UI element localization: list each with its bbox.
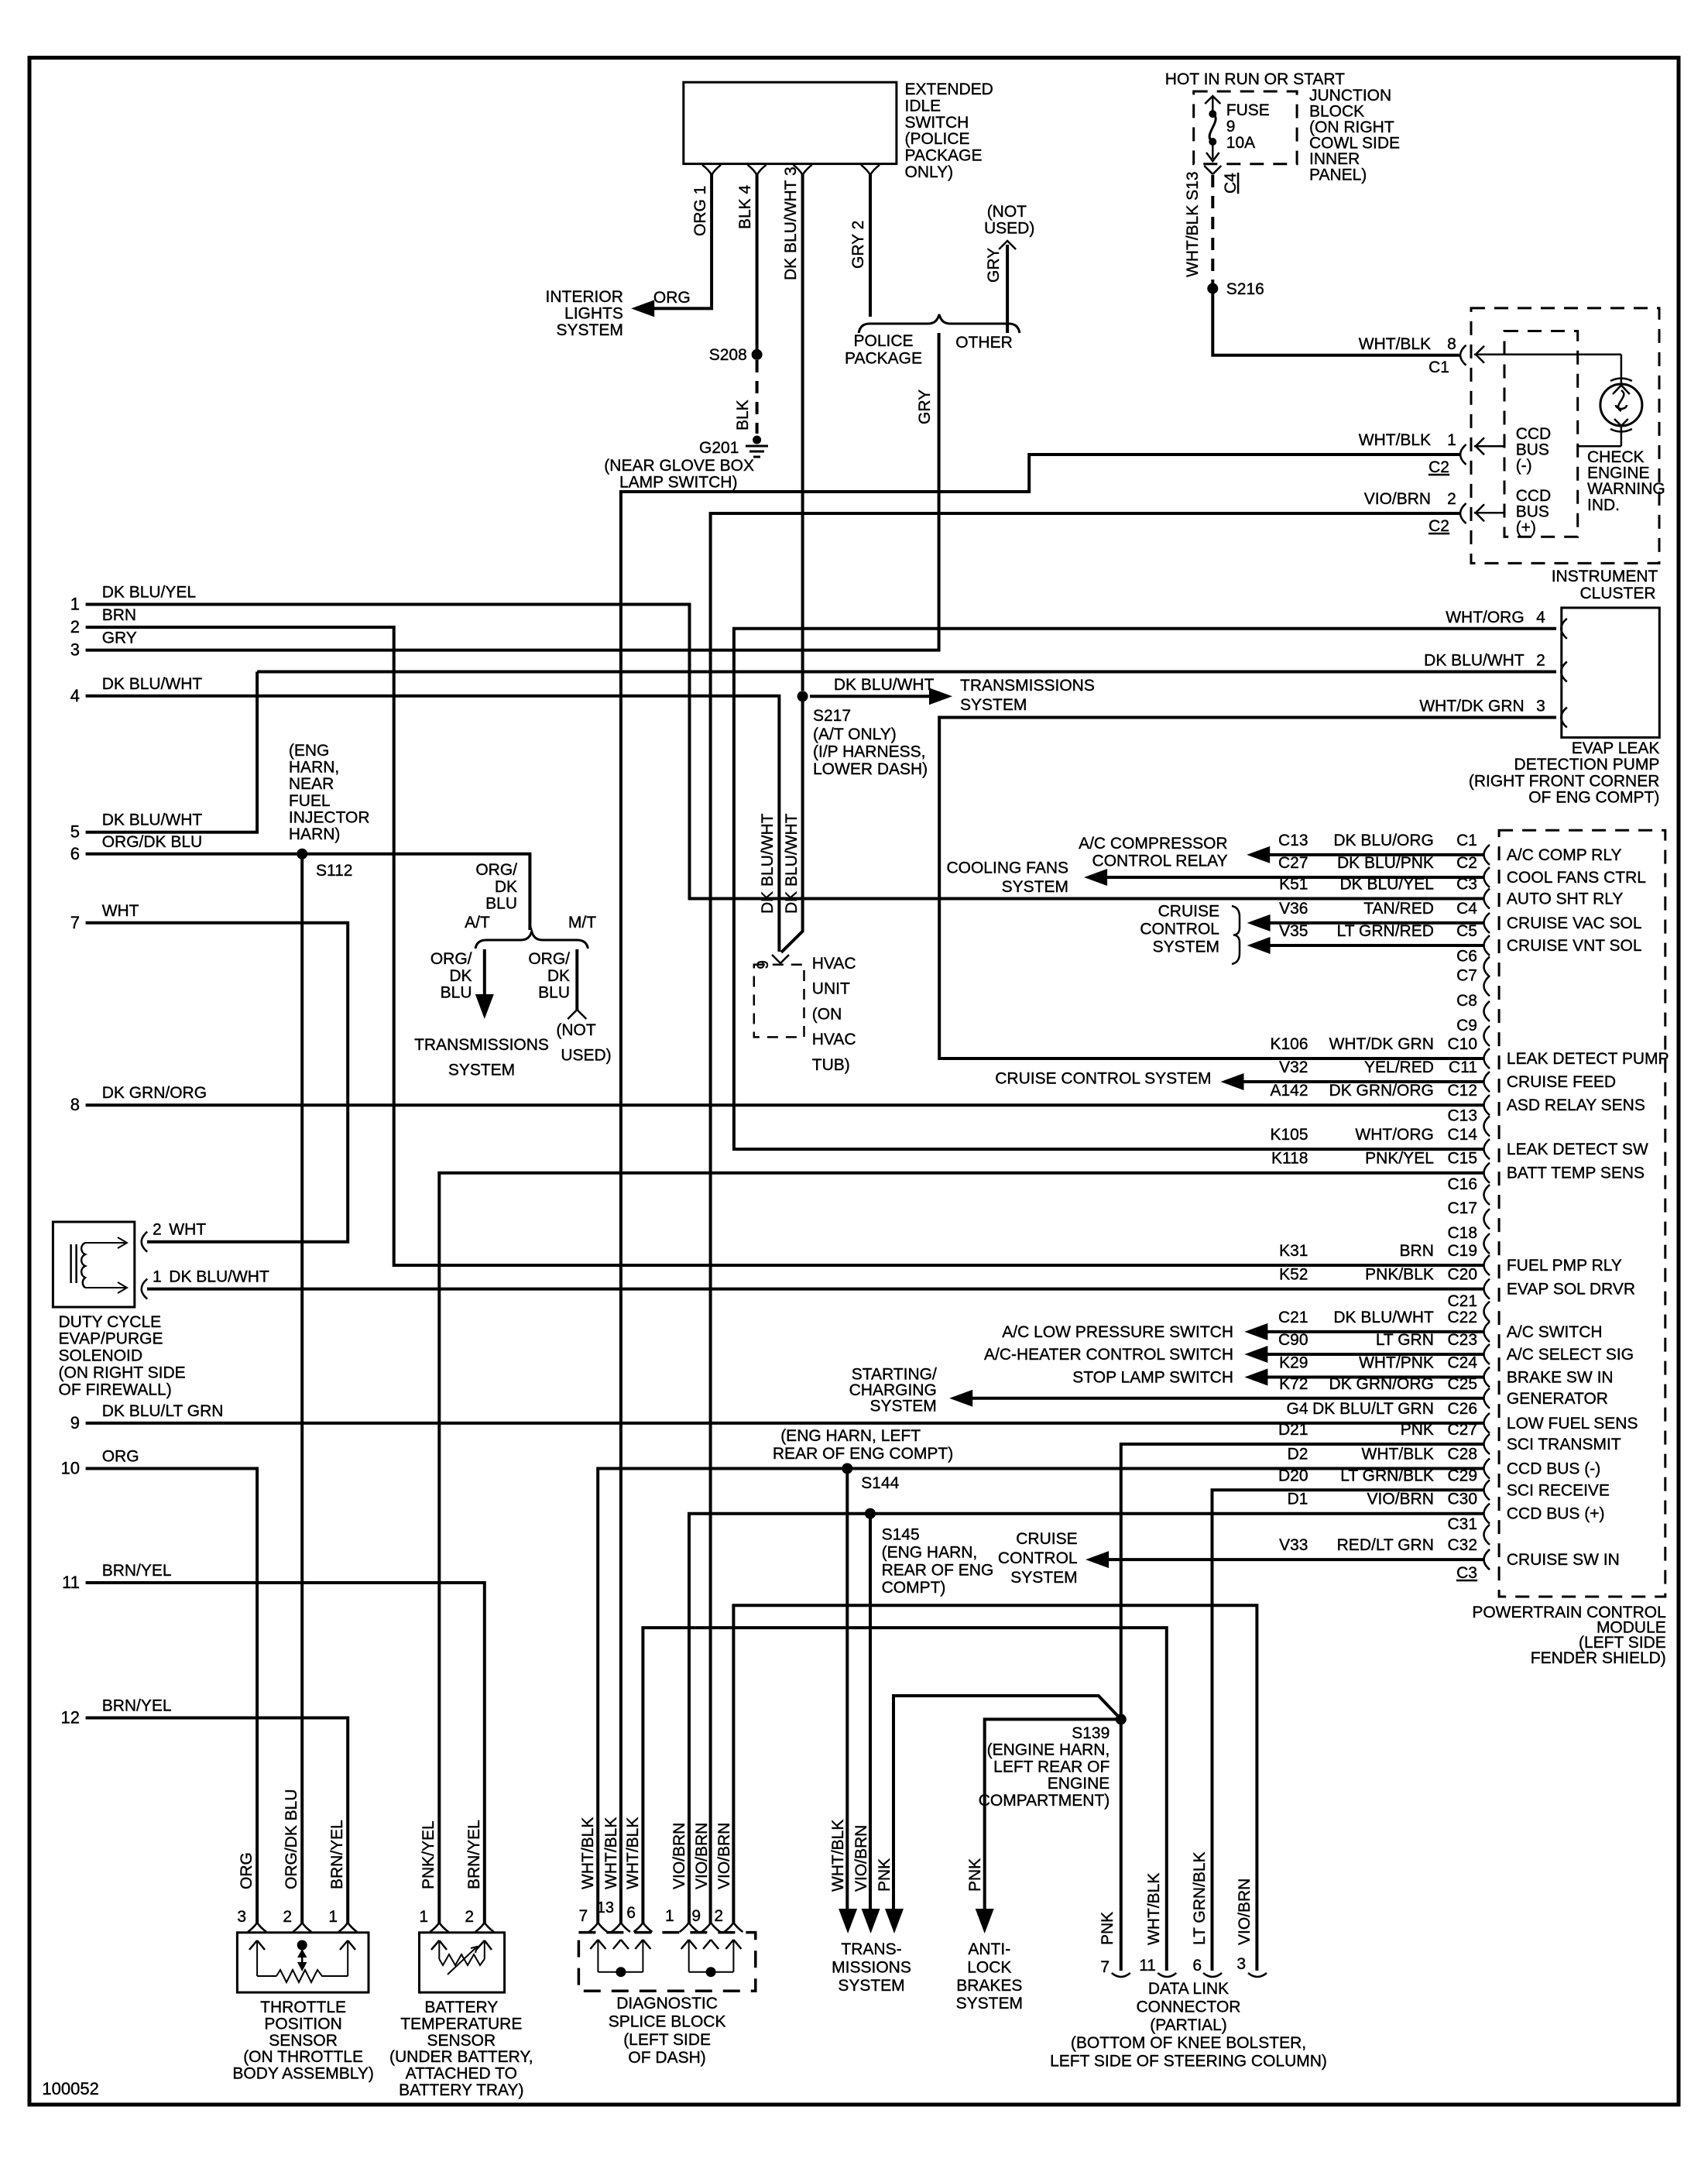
svg-text:CCD BUS (-): CCD BUS (-) [1507, 1460, 1600, 1478]
svg-text:SYSTEM: SYSTEM [838, 1977, 904, 1995]
svg-text:C13: C13 [1447, 1107, 1477, 1124]
svg-text:D21: D21 [1278, 1421, 1308, 1439]
svg-text:S145: S145 [882, 1526, 920, 1544]
svg-text:IND.: IND. [1587, 496, 1620, 514]
svg-text:DK BLU/WHT: DK BLU/WHT [1424, 652, 1525, 670]
svg-text:1: 1 [665, 1907, 674, 1925]
svg-text:SCI TRANSMIT: SCI TRANSMIT [1507, 1436, 1621, 1453]
svg-text:C22: C22 [1447, 1309, 1477, 1326]
svg-text:COOL FANS CTRL: COOL FANS CTRL [1507, 869, 1646, 887]
svg-text:LT GRN: LT GRN [1376, 1331, 1434, 1349]
svg-text:G4: G4 [1286, 1400, 1308, 1418]
svg-text:TRANS-: TRANS- [841, 1940, 901, 1958]
svg-text:WHT/BLK: WHT/BLK [829, 1820, 847, 1892]
svg-text:HVAC: HVAC [812, 1031, 856, 1048]
svg-text:ATTACHED TO: ATTACHED TO [406, 2065, 517, 2083]
svg-text:K29: K29 [1279, 1354, 1308, 1372]
svg-text:SYSTEM: SYSTEM [557, 321, 623, 339]
svg-text:V36: V36 [1279, 900, 1308, 918]
svg-text:SYSTEM: SYSTEM [1010, 1569, 1077, 1587]
svg-text:GRY: GRY [985, 248, 1003, 283]
svg-text:TEMPERATURE: TEMPERATURE [400, 2015, 522, 2033]
svg-text:9: 9 [754, 960, 772, 969]
svg-text:CONTROL: CONTROL [998, 1549, 1078, 1567]
svg-text:REAR OF ENG: REAR OF ENG [882, 1561, 994, 1579]
svg-text:ASD RELAY SENS: ASD RELAY SENS [1507, 1096, 1645, 1114]
svg-text:ORG: ORG [653, 289, 691, 307]
svg-text:C24: C24 [1447, 1354, 1477, 1372]
svg-text:(POLICE: (POLICE [905, 130, 970, 148]
svg-text:11: 11 [1139, 1957, 1156, 1975]
svg-text:V35: V35 [1279, 922, 1308, 940]
svg-text:S208: S208 [709, 346, 747, 364]
svg-text:ORG: ORG [102, 1448, 139, 1466]
svg-text:ONLY): ONLY) [905, 163, 954, 181]
svg-text:BRAKES: BRAKES [956, 1977, 1022, 1995]
svg-text:LAMP SWITCH): LAMP SWITCH) [619, 474, 737, 492]
svg-text:BUS: BUS [1516, 503, 1549, 521]
svg-text:C31: C31 [1447, 1515, 1477, 1533]
svg-text:SYSTEM: SYSTEM [960, 696, 1027, 714]
svg-text:PACKAGE: PACKAGE [905, 147, 983, 165]
svg-text:SYSTEM: SYSTEM [448, 1062, 515, 1079]
svg-text:(A/T ONLY): (A/T ONLY) [813, 726, 897, 743]
svg-text:WHT/ORG: WHT/ORG [1355, 1126, 1433, 1144]
svg-text:D2: D2 [1288, 1446, 1308, 1463]
svg-text:VIO/BRN: VIO/BRN [715, 1823, 733, 1889]
svg-text:(ON: (ON [812, 1005, 842, 1023]
svg-text:7: 7 [70, 913, 80, 932]
svg-text:SENSOR: SENSOR [269, 2032, 338, 2050]
svg-text:TRANSMISSIONS: TRANSMISSIONS [960, 677, 1095, 695]
svg-text:C5: C5 [1456, 922, 1477, 940]
svg-text:CRUISE VNT SOL: CRUISE VNT SOL [1507, 937, 1642, 955]
svg-text:C10: C10 [1447, 1035, 1477, 1053]
svg-text:ORG 1: ORG 1 [691, 186, 709, 236]
svg-text:C4: C4 [1222, 173, 1240, 194]
svg-text:POSITION: POSITION [264, 2015, 341, 2033]
svg-text:C8: C8 [1456, 992, 1477, 1010]
svg-text:CONTROL: CONTROL [1140, 921, 1219, 938]
svg-text:9: 9 [691, 1907, 701, 1925]
svg-text:EVAP SOL DRVR: EVAP SOL DRVR [1507, 1281, 1635, 1299]
svg-text:BLU: BLU [485, 895, 517, 913]
svg-text:WHT/BLK: WHT/BLK [602, 1817, 620, 1889]
svg-text:POLICE: POLICE [853, 332, 913, 350]
svg-text:CRUISE FEED: CRUISE FEED [1507, 1073, 1616, 1091]
svg-text:EXTENDED: EXTENDED [905, 81, 993, 98]
svg-text:2: 2 [283, 1908, 292, 1926]
svg-text:2: 2 [70, 617, 80, 636]
svg-text:WHT/BLK: WHT/BLK [1359, 431, 1431, 449]
svg-text:TAN/RED: TAN/RED [1363, 900, 1434, 918]
svg-text:C32: C32 [1447, 1536, 1477, 1554]
svg-text:(NOT: (NOT [556, 1021, 595, 1039]
svg-text:INSTRUMENT: INSTRUMENT [1552, 568, 1658, 585]
svg-text:COMPT): COMPT) [882, 1579, 946, 1597]
svg-text:SWITCH: SWITCH [905, 114, 969, 132]
svg-text:1: 1 [153, 1268, 162, 1286]
svg-text:WHT/DK GRN: WHT/DK GRN [1419, 698, 1524, 715]
svg-text:8: 8 [70, 1095, 80, 1114]
svg-text:S144: S144 [861, 1474, 899, 1492]
svg-text:1: 1 [70, 595, 80, 614]
svg-text:LT GRN/BLK: LT GRN/BLK [1191, 1851, 1209, 1945]
svg-text:CRUISE SW IN: CRUISE SW IN [1507, 1551, 1620, 1569]
svg-text:2: 2 [1536, 652, 1545, 670]
svg-text:EVAP LEAK: EVAP LEAK [1572, 739, 1660, 757]
svg-text:CRUISE: CRUISE [1158, 903, 1219, 921]
svg-text:SYSTEM: SYSTEM [956, 1995, 1023, 2012]
svg-text:WHT/BLK: WHT/BLK [1362, 1446, 1434, 1463]
svg-text:C3: C3 [1456, 1564, 1477, 1582]
svg-text:D1: D1 [1288, 1491, 1308, 1508]
svg-text:C21: C21 [1278, 1309, 1308, 1326]
svg-text:C17: C17 [1447, 1199, 1477, 1217]
svg-text:TUB): TUB) [812, 1056, 850, 1074]
svg-text:YEL/RED: YEL/RED [1364, 1058, 1434, 1076]
svg-text:C1: C1 [1428, 359, 1449, 376]
svg-text:CRUISE VAC SOL: CRUISE VAC SOL [1507, 914, 1642, 932]
svg-text:DATA LINK: DATA LINK [1148, 1980, 1229, 1998]
svg-text:CONTROL RELAY: CONTROL RELAY [1092, 853, 1228, 870]
svg-text:LT GRN/RED: LT GRN/RED [1337, 922, 1434, 940]
svg-text:PNK: PNK [1401, 1421, 1434, 1439]
svg-text:ANTI-: ANTI- [968, 1940, 1010, 1958]
svg-text:A/C SELECT SIG: A/C SELECT SIG [1507, 1346, 1634, 1364]
svg-text:A/C SWITCH: A/C SWITCH [1507, 1323, 1603, 1341]
svg-text:BLU: BLU [538, 984, 570, 1002]
svg-text:DK BLU/WHT: DK BLU/WHT [783, 813, 801, 914]
svg-text:VIO/BRN: VIO/BRN [693, 1823, 711, 1889]
svg-text:CCD BUS (+): CCD BUS (+) [1507, 1505, 1605, 1523]
svg-text:K106: K106 [1270, 1035, 1308, 1053]
svg-text:WHT/BLK: WHT/BLK [1359, 335, 1431, 353]
svg-text:C16: C16 [1447, 1175, 1477, 1193]
svg-text:DK BLU/WHT: DK BLU/WHT [1333, 1309, 1434, 1326]
svg-text:V33: V33 [1279, 1536, 1308, 1554]
svg-text:C6: C6 [1456, 948, 1477, 966]
svg-text:CHECK: CHECK [1587, 448, 1645, 466]
svg-text:ORG/DK BLU: ORG/DK BLU [283, 1789, 300, 1889]
svg-text:DK GRN/ORG: DK GRN/ORG [1329, 1082, 1434, 1100]
svg-text:1: 1 [1447, 431, 1456, 449]
svg-text:GENERATOR: GENERATOR [1507, 1390, 1608, 1408]
svg-text:A/C COMP RLY: A/C COMP RLY [1507, 846, 1622, 864]
svg-text:ENGINE: ENGINE [1048, 1775, 1110, 1793]
svg-text:3: 3 [70, 640, 80, 660]
svg-text:WHT/DK GRN: WHT/DK GRN [1329, 1035, 1434, 1053]
svg-text:C20: C20 [1447, 1266, 1477, 1284]
svg-text:DK BLU/PNK: DK BLU/PNK [1337, 854, 1434, 872]
svg-text:(ENG HARN,: (ENG HARN, [882, 1544, 978, 1562]
svg-text:CCD: CCD [1516, 487, 1552, 505]
svg-text:VIO/BRN: VIO/BRN [1364, 490, 1431, 508]
svg-text:3: 3 [237, 1908, 246, 1926]
svg-text:DK BLU/LT GRN: DK BLU/LT GRN [102, 1402, 224, 1420]
svg-text:PNK/YEL: PNK/YEL [420, 1820, 437, 1889]
svg-text:DK: DK [495, 878, 517, 896]
svg-text:PNK/YEL: PNK/YEL [1365, 1150, 1434, 1168]
svg-text:ORG/DK BLU: ORG/DK BLU [102, 833, 203, 851]
svg-text:BRN: BRN [102, 606, 136, 624]
svg-text:THROTTLE: THROTTLE [260, 1999, 346, 2016]
svg-text:G201: G201 [699, 439, 739, 457]
svg-text:LEAK DETECT SW: LEAK DETECT SW [1507, 1141, 1648, 1158]
svg-text:DK BLU/LT GRN: DK BLU/LT GRN [1312, 1400, 1434, 1418]
svg-text:(RIGHT FRONT CORNER: (RIGHT FRONT CORNER [1469, 772, 1660, 790]
svg-text:STOP LAMP SWITCH: STOP LAMP SWITCH [1072, 1369, 1233, 1387]
svg-text:SYSTEM: SYSTEM [1153, 938, 1219, 956]
svg-text:COOLING FANS: COOLING FANS [946, 859, 1068, 877]
svg-text:(NEAR GLOVE BOX: (NEAR GLOVE BOX [604, 457, 754, 475]
svg-text:BLK: BLK [734, 400, 752, 431]
svg-text:11: 11 [62, 1573, 80, 1592]
svg-text:TRANSMISSIONS: TRANSMISSIONS [414, 1036, 549, 1054]
svg-text:REAR OF ENG COMPT): REAR OF ENG COMPT) [773, 1445, 953, 1463]
svg-text:13: 13 [597, 1899, 614, 1916]
svg-text:HOT IN RUN OR START: HOT IN RUN OR START [1165, 70, 1345, 88]
svg-text:AUTO SHT RLY: AUTO SHT RLY [1507, 890, 1624, 908]
svg-text:LIGHTS: LIGHTS [564, 304, 623, 322]
svg-text:C23: C23 [1447, 1331, 1477, 1349]
svg-text:C27: C27 [1278, 854, 1308, 872]
svg-text:FUEL: FUEL [289, 792, 331, 810]
svg-text:A/T: A/T [465, 914, 490, 932]
svg-text:CCD: CCD [1516, 425, 1552, 443]
svg-text:WHT/BLK S13: WHT/BLK S13 [1184, 171, 1202, 277]
svg-text:S112: S112 [316, 862, 353, 880]
svg-text:C18: C18 [1447, 1224, 1477, 1242]
svg-text:S216: S216 [1226, 280, 1264, 298]
svg-text:(ENG: (ENG [289, 742, 330, 760]
svg-text:V32: V32 [1279, 1058, 1308, 1076]
svg-text:OTHER: OTHER [955, 334, 1013, 352]
svg-text:SCI RECEIVE: SCI RECEIVE [1507, 1481, 1610, 1499]
svg-text:(ENG HARN, LEFT: (ENG HARN, LEFT [780, 1427, 921, 1445]
svg-text:ORG/: ORG/ [475, 861, 517, 879]
svg-text:A/C-HEATER CONTROL SWITCH: A/C-HEATER CONTROL SWITCH [984, 1346, 1233, 1364]
svg-text:C30: C30 [1447, 1491, 1477, 1508]
svg-text:COMPARTMENT): COMPARTMENT) [979, 1792, 1110, 1810]
svg-text:OF ENG COMPT): OF ENG COMPT) [1528, 789, 1659, 807]
svg-text:UNIT: UNIT [812, 980, 850, 998]
svg-text:K52: K52 [1279, 1266, 1308, 1284]
svg-text:DK: DK [547, 967, 570, 985]
svg-text:C13: C13 [1278, 832, 1308, 849]
svg-text:NEAR: NEAR [289, 775, 334, 793]
svg-text:PNK: PNK [1099, 1912, 1116, 1945]
svg-text:(ON THROTTLE: (ON THROTTLE [243, 2048, 363, 2066]
svg-text:MISSIONS: MISSIONS [832, 1958, 911, 1976]
svg-text:CRUISE: CRUISE [1016, 1530, 1077, 1548]
svg-text:IDLE: IDLE [905, 97, 941, 115]
svg-text:2: 2 [714, 1907, 723, 1925]
svg-text:DK BLU/WHT 3: DK BLU/WHT 3 [782, 166, 800, 280]
svg-text:(-): (-) [1516, 457, 1532, 475]
svg-text:5: 5 [70, 822, 80, 842]
svg-text:3: 3 [1536, 698, 1545, 715]
svg-text:DK BLU/WHT: DK BLU/WHT [834, 676, 935, 694]
svg-text:DK BLU/YEL: DK BLU/YEL [102, 584, 196, 602]
svg-text:WARNING: WARNING [1587, 480, 1665, 498]
svg-text:100052: 100052 [42, 2079, 98, 2098]
svg-text:A/C COMPRESSOR: A/C COMPRESSOR [1079, 835, 1228, 853]
svg-text:USED): USED) [984, 220, 1034, 238]
svg-text:10: 10 [61, 1459, 80, 1478]
svg-text:SYSTEM: SYSTEM [869, 1397, 936, 1415]
svg-text:CRUISE CONTROL SYSTEM: CRUISE CONTROL SYSTEM [995, 1070, 1211, 1088]
svg-text:8: 8 [1447, 335, 1456, 353]
svg-text:C19: C19 [1447, 1242, 1477, 1260]
svg-text:(PARTIAL): (PARTIAL) [1150, 2016, 1227, 2034]
svg-text:WHT/BLK: WHT/BLK [579, 1817, 597, 1889]
svg-text:CLUSTER: CLUSTER [1579, 585, 1655, 602]
svg-text:SOLENOID: SOLENOID [59, 1347, 143, 1365]
svg-text:S139: S139 [1072, 1724, 1110, 1742]
svg-text:HARN,: HARN, [289, 759, 339, 777]
svg-text:BUS: BUS [1516, 441, 1549, 459]
svg-text:DK BLU/WHT: DK BLU/WHT [169, 1268, 269, 1286]
svg-text:C2: C2 [1428, 458, 1449, 476]
svg-text:LEFT SIDE OF STEERING COLUMN): LEFT SIDE OF STEERING COLUMN) [1050, 2053, 1327, 2071]
svg-text:LOWER DASH): LOWER DASH) [813, 760, 928, 778]
svg-text:VIO/BRN: VIO/BRN [1367, 1491, 1434, 1508]
svg-text:C26: C26 [1447, 1400, 1477, 1418]
svg-text:FUSE: FUSE [1226, 101, 1270, 119]
svg-text:K118: K118 [1271, 1150, 1308, 1168]
svg-text:2: 2 [1447, 490, 1456, 508]
svg-text:FUEL PMP RLY: FUEL PMP RLY [1507, 1257, 1622, 1275]
svg-text:C2: C2 [1428, 517, 1449, 535]
svg-text:BLU: BLU [441, 984, 472, 1002]
svg-text:USED): USED) [561, 1047, 611, 1065]
svg-text:HVAC: HVAC [812, 955, 856, 973]
svg-text:2: 2 [465, 1908, 474, 1926]
svg-text:C14: C14 [1447, 1126, 1477, 1144]
svg-text:BRN/YEL: BRN/YEL [465, 1820, 483, 1889]
svg-text:DIAGNOSTIC: DIAGNOSTIC [616, 1995, 718, 2012]
svg-text:C27: C27 [1447, 1421, 1477, 1439]
svg-text:WHT/BLK: WHT/BLK [1145, 1873, 1163, 1945]
svg-text:VIO/BRN: VIO/BRN [1236, 1879, 1254, 1945]
svg-text:4: 4 [70, 686, 80, 705]
svg-text:BLK 4: BLK 4 [736, 184, 754, 229]
svg-text:(UNDER BATTERY,: (UNDER BATTERY, [389, 2048, 533, 2066]
svg-text:WHT/BLK: WHT/BLK [624, 1817, 642, 1889]
svg-text:C21: C21 [1447, 1292, 1477, 1310]
svg-text:C1: C1 [1456, 832, 1477, 849]
svg-text:RED/LT GRN: RED/LT GRN [1337, 1536, 1434, 1554]
svg-text:A142: A142 [1270, 1082, 1308, 1100]
svg-text:7: 7 [579, 1907, 588, 1925]
svg-text:(LEFT SIDE: (LEFT SIDE [623, 2031, 711, 2049]
svg-text:10A: 10A [1226, 134, 1255, 152]
svg-text:(I/P HARNESS,: (I/P HARNESS, [813, 743, 925, 761]
svg-text:C15: C15 [1447, 1150, 1477, 1168]
svg-text:INTERIOR: INTERIOR [546, 288, 623, 306]
svg-text:DK BLU/WHT: DK BLU/WHT [102, 811, 203, 829]
svg-text:(ENGINE HARN,: (ENGINE HARN, [987, 1741, 1110, 1759]
svg-text:BRN/YEL: BRN/YEL [328, 1820, 346, 1889]
svg-text:(BOTTOM OF KNEE BOLSTER,: (BOTTOM OF KNEE BOLSTER, [1071, 2034, 1306, 2052]
svg-text:BRN/YEL: BRN/YEL [102, 1697, 172, 1715]
svg-text:PNK/BLK: PNK/BLK [1365, 1266, 1434, 1284]
svg-text:GRY 2: GRY 2 [849, 221, 867, 269]
svg-text:DUTY CYCLE: DUTY CYCLE [59, 1313, 162, 1331]
svg-text:S217: S217 [813, 707, 851, 725]
svg-text:ORG: ORG [238, 1852, 256, 1889]
svg-text:SPLICE BLOCK: SPLICE BLOCK [609, 2012, 726, 2030]
svg-text:C7: C7 [1456, 966, 1477, 984]
svg-text:K31: K31 [1279, 1242, 1308, 1260]
svg-text:HARN): HARN) [289, 825, 341, 843]
svg-text:GRY: GRY [102, 630, 137, 647]
svg-text:7: 7 [1100, 1958, 1110, 1976]
svg-text:9: 9 [70, 1413, 80, 1432]
svg-text:C12: C12 [1447, 1082, 1477, 1100]
svg-text:LEAK DETECT PUMP: LEAK DETECT PUMP [1507, 1050, 1669, 1068]
svg-text:C28: C28 [1447, 1446, 1477, 1463]
svg-text:BRN/YEL: BRN/YEL [102, 1562, 172, 1580]
svg-text:BODY ASSEMBLY): BODY ASSEMBLY) [232, 2065, 373, 2083]
svg-text:BRAKE SW IN: BRAKE SW IN [1507, 1369, 1614, 1387]
svg-text:BRN: BRN [1400, 1242, 1434, 1260]
svg-text:VIO/BRN: VIO/BRN [671, 1823, 688, 1889]
svg-text:BATT TEMP SENS: BATT TEMP SENS [1507, 1165, 1645, 1182]
svg-text:WHT/ORG: WHT/ORG [1446, 609, 1524, 626]
svg-text:SYSTEM: SYSTEM [1002, 878, 1068, 896]
svg-text:DK BLU/WHT: DK BLU/WHT [102, 675, 203, 693]
svg-text:ORG/: ORG/ [430, 950, 472, 968]
svg-text:C9: C9 [1456, 1017, 1477, 1034]
svg-text:DK BLU/WHT: DK BLU/WHT [759, 813, 777, 914]
svg-text:CONNECTOR: CONNECTOR [1137, 1998, 1241, 2016]
svg-text:INJECTOR: INJECTOR [289, 808, 370, 826]
svg-text:1: 1 [419, 1908, 428, 1926]
svg-text:1: 1 [328, 1908, 338, 1926]
svg-text:PANEL): PANEL) [1309, 166, 1367, 184]
svg-text:C2: C2 [1456, 854, 1477, 872]
svg-text:GRY: GRY [916, 389, 934, 424]
svg-text:(+): (+) [1516, 519, 1536, 537]
svg-text:WHT: WHT [169, 1221, 206, 1239]
svg-text:M/T: M/T [568, 914, 596, 932]
svg-text:DK GRN/ORG: DK GRN/ORG [102, 1084, 207, 1102]
svg-text:DETECTION PUMP: DETECTION PUMP [1514, 756, 1660, 774]
svg-text:2: 2 [153, 1221, 162, 1239]
svg-text:K105: K105 [1270, 1126, 1308, 1144]
svg-text:FENDER SHIELD): FENDER SHIELD) [1531, 1649, 1666, 1667]
svg-text:OF DASH): OF DASH) [628, 2049, 705, 2067]
svg-text:PNK: PNK [876, 1858, 893, 1892]
svg-text:9: 9 [1226, 118, 1236, 136]
svg-text:C4: C4 [1456, 900, 1477, 918]
svg-text:(NOT: (NOT [987, 203, 1027, 221]
svg-text:4: 4 [1536, 609, 1545, 626]
svg-text:LEFT REAR OF: LEFT REAR OF [993, 1758, 1110, 1776]
svg-text:6: 6 [1192, 1957, 1202, 1975]
svg-text:PACKAGE: PACKAGE [845, 350, 922, 368]
svg-text:OF FIREWALL): OF FIREWALL) [59, 1381, 172, 1398]
svg-text:VIO/BRN: VIO/BRN [852, 1825, 870, 1892]
svg-text:3: 3 [1236, 1955, 1246, 1973]
svg-text:6: 6 [70, 844, 80, 863]
svg-text:DK: DK [449, 967, 472, 985]
svg-text:WHT/PNK: WHT/PNK [1359, 1354, 1434, 1372]
svg-text:6: 6 [626, 1904, 636, 1922]
svg-text:C11: C11 [1449, 1058, 1477, 1076]
